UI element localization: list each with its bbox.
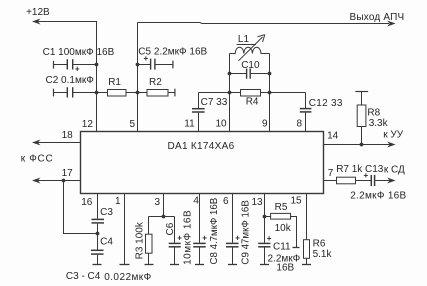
svg-text:+: + bbox=[75, 65, 80, 74]
svg-text:+: + bbox=[144, 54, 149, 63]
svg-text:16В: 16В bbox=[276, 262, 294, 273]
svg-text:5: 5 bbox=[130, 119, 136, 130]
svg-text:16: 16 bbox=[81, 197, 93, 208]
svg-text:R3 100k: R3 100k bbox=[134, 221, 145, 259]
svg-text:5.1k: 5.1k bbox=[313, 249, 333, 260]
svg-text:10k: 10k bbox=[275, 223, 292, 234]
svg-text:к СД: к СД bbox=[384, 165, 405, 176]
svg-text:6: 6 bbox=[223, 196, 229, 207]
svg-text:4: 4 bbox=[193, 196, 199, 207]
svg-text:C5 2.2мкФ 16В: C5 2.2мкФ 16В bbox=[138, 47, 207, 58]
svg-text:C6: C6 bbox=[165, 222, 176, 235]
svg-text:15: 15 bbox=[291, 196, 303, 207]
svg-text:R1: R1 bbox=[108, 77, 121, 88]
svg-text:+: + bbox=[202, 234, 207, 243]
svg-text:C7 33: C7 33 bbox=[201, 97, 228, 108]
svg-text:3: 3 bbox=[155, 197, 161, 208]
svg-text:12: 12 bbox=[82, 119, 94, 130]
svg-text:R5: R5 bbox=[275, 202, 288, 213]
svg-text:10мкФ 16В: 10мкФ 16В bbox=[183, 210, 194, 265]
svg-text:к ФСС: к ФСС bbox=[21, 154, 54, 165]
svg-text:17: 17 bbox=[62, 168, 74, 179]
svg-text:+: + bbox=[267, 234, 272, 243]
svg-text:1: 1 bbox=[115, 196, 121, 207]
svg-text:Выход АПЧ: Выход АПЧ bbox=[350, 12, 405, 23]
svg-text:С3 - С4: С3 - С4 bbox=[66, 271, 101, 282]
svg-text:C4: C4 bbox=[100, 237, 113, 248]
svg-text:C3: C3 bbox=[100, 207, 113, 218]
svg-text:C9 47мкФ 16В: C9 47мкФ 16В bbox=[240, 200, 251, 264]
svg-text:8: 8 bbox=[297, 119, 303, 130]
svg-text:10: 10 bbox=[216, 118, 228, 129]
svg-text:R8: R8 bbox=[367, 107, 380, 118]
svg-text:9: 9 bbox=[262, 119, 268, 130]
svg-text:L1: L1 bbox=[238, 34, 250, 45]
svg-text:R6: R6 bbox=[313, 238, 326, 249]
svg-text:13: 13 bbox=[252, 197, 264, 208]
svg-text:R2: R2 bbox=[149, 77, 162, 88]
svg-text:R4: R4 bbox=[246, 97, 259, 108]
svg-text:C12 33: C12 33 bbox=[309, 98, 343, 109]
svg-text:14: 14 bbox=[327, 131, 339, 142]
svg-text:к УУ: к УУ bbox=[383, 129, 404, 140]
svg-text:R7 1k: R7 1k bbox=[336, 164, 363, 175]
svg-text:DA1 К174ХА6: DA1 К174ХА6 bbox=[168, 141, 235, 152]
svg-text:7: 7 bbox=[328, 168, 334, 179]
svg-text:+12В: +12В bbox=[26, 7, 50, 18]
svg-text:11: 11 bbox=[184, 118, 195, 129]
svg-text:+: + bbox=[364, 171, 369, 180]
svg-text:+: + bbox=[177, 233, 182, 242]
svg-text:C1 100мкФ 16В: C1 100мкФ 16В bbox=[43, 47, 115, 58]
svg-text:C10: C10 bbox=[241, 60, 260, 71]
svg-text:C11: C11 bbox=[273, 242, 291, 253]
svg-text:C8 4.7мкФ 16В: C8 4.7мкФ 16В bbox=[209, 198, 220, 265]
svg-text:C2 0.1мкФ: C2 0.1мкФ bbox=[46, 75, 95, 86]
svg-text:0.022мкФ: 0.022мкФ bbox=[104, 272, 151, 283]
svg-text:2.2мкФ 16В: 2.2мкФ 16В bbox=[350, 191, 406, 202]
svg-text:18: 18 bbox=[62, 130, 74, 141]
svg-text:3.3k: 3.3k bbox=[369, 118, 389, 129]
